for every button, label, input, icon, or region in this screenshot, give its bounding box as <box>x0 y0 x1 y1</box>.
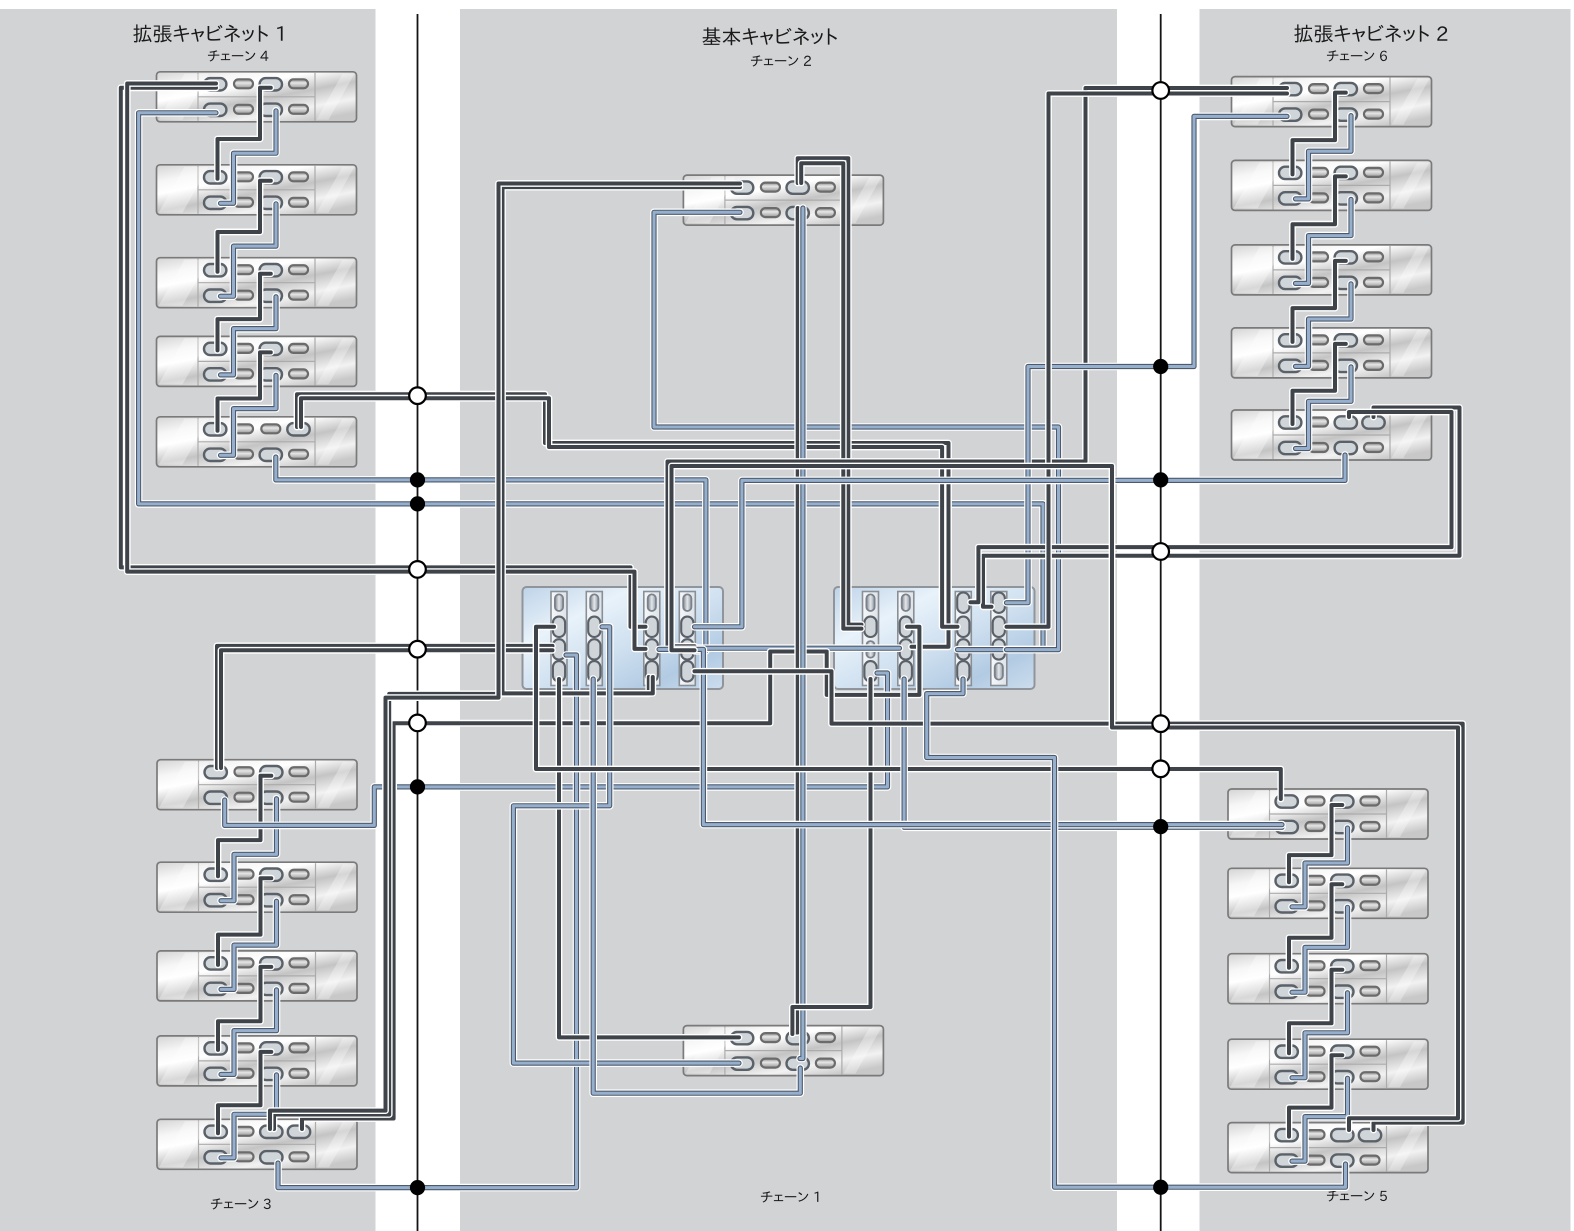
SAS cable RT1 r1p3 to RT2 r1p1 <box>1293 93 1346 175</box>
disk shelf chain4-5 <box>157 417 357 467</box>
disk shelf chain3-1 <box>157 760 357 810</box>
disk shelf chain3-5 <box>157 1119 357 1169</box>
cable CT r2p3 to CB r2p3 <box>800 208 803 1059</box>
cable C2 card4 p1 to RT5 r1p4 <box>983 408 1460 607</box>
disk shelf chain6-1 <box>1232 77 1432 127</box>
disk shelf chain3-3 <box>157 951 357 1001</box>
open junction circle at rack boundary (417.5,395.7) <box>409 387 426 404</box>
junction dot at rack boundary (417.5,1187.6) <box>410 1180 425 1195</box>
rack boundary line (right) <box>1160 14 1162 1231</box>
open junction circle at rack boundary (1160.7,723.7) <box>1152 715 1169 732</box>
cable C2 card4 p2 to RT1 r1p1 <box>1007 94 1288 627</box>
SAS cable LB2 r1p3 to LB3 r1p1 <box>218 878 271 965</box>
open junction circle at rack boundary (1160.7,90.5) <box>1152 82 1169 99</box>
open junction circle at rack boundary (417.5,649.2) <box>409 641 426 658</box>
cable LT5 r1p4 to C2 card3 p2 <box>301 398 958 627</box>
SAS cable RT3 r2p3 to RT4 r2p1 <box>1296 284 1352 367</box>
disk shelf chain6-3 <box>1232 245 1432 295</box>
SAS cable LT1 r1p3 to LT2 r1p1 <box>218 88 271 179</box>
SAS cable RB4 r1p3 to RB5 r1p1 <box>1289 1055 1342 1136</box>
SAS cable LB1 r1p3 to LB2 r1p1 <box>218 776 271 877</box>
disk shelf chain3-2 <box>157 862 357 912</box>
cabinet panel: expansion cabinet 2 (right) <box>1200 9 1571 1231</box>
SAS cable RB4 r2p3 to RB5 r2p1 <box>1292 1078 1348 1161</box>
title: base cabinet <box>702 27 837 45</box>
cable C1 card4 p2 to RT5 r2p3 <box>695 455 1346 627</box>
cable C2 card3 p4 to RB5 r2p3 <box>927 679 1346 1187</box>
SAS cable RB2 r1p3 to RB3 r1p1 <box>1289 884 1342 967</box>
cable C1 card3 p4 to LB5 r1p3 <box>274 677 649 1129</box>
disk shelf chain4-1 <box>157 72 357 122</box>
SAS cable LT2 r2p3 to LT3 r2p1 <box>221 204 277 296</box>
cable CT r1p1 to LB5 r1p3 b <box>270 184 740 1130</box>
disk shelf chain6-4 <box>1232 328 1432 378</box>
title: expansion cabinet 2 <box>1294 24 1447 42</box>
cable C2 card2 p2 to LB5 r1p4 <box>302 627 919 1129</box>
disk shelf chain4-3 <box>157 258 357 308</box>
cable C1 card4 p4 to RB5 r1p4 <box>695 671 1463 1130</box>
disk shelf chain5-2 <box>1228 868 1428 918</box>
SAS cable LB4 r2p3 to LB5 r2p1 <box>221 1075 277 1158</box>
SAS cable RT1 r2p3 to RT2 r2p1 <box>1296 116 1352 199</box>
SAS cable RT4 r2p3 to RT5 r2p1 <box>1296 367 1352 449</box>
junction dot at rack boundary (1160.7,479.9) <box>1153 472 1168 487</box>
label: chain 2 <box>751 55 811 66</box>
SAS cable RB3 r1p3 to RB4 r1p1 <box>1289 970 1342 1053</box>
controller head 1 <box>523 587 724 689</box>
label: chain 1 <box>761 1191 818 1202</box>
cable C1 card4 p3 to C2 card2 p3 <box>695 644 900 652</box>
disk shelf chain2 <box>683 175 883 225</box>
disk shelf chain6-2 <box>1232 160 1432 210</box>
cable C1 card2 p2 to CB r2p1 <box>513 627 739 1063</box>
SAS cable LB2 r2p3 to LB3 r2p1 <box>221 901 277 989</box>
SAS cable RT3 r1p3 to RT4 r1p1 <box>1293 261 1346 342</box>
junction dot at rack boundary (417.5,503.9) <box>410 496 425 511</box>
title: expansion cabinet 1 <box>133 24 282 42</box>
disk shelf chain5-4 <box>1228 1039 1428 1089</box>
disk shelf chain3-4 <box>157 1036 357 1086</box>
SAS cable LB4 r1p3 to LB5 r1p1 <box>218 1052 271 1133</box>
SAS cable LT2 r1p3 to LT3 r1p1 <box>218 181 271 272</box>
cable C2 card4 p1 to RT1 r2p1 <box>1007 116 1288 602</box>
open junction circle at rack boundary (417.5,722.9) <box>409 715 426 732</box>
SAS cable LT4 r2p3 to LT5 r2p1 <box>221 375 277 455</box>
SAS cable RB2 r2p3 to RB3 r2p1 <box>1292 907 1348 992</box>
cable LB1 r1p1 to C1 card1 p3 <box>217 646 553 768</box>
SAS cable LB1 r2p3 to LB2 r2p1 <box>221 799 277 901</box>
SAS cable RB3 r2p3 to RB4 r2p1 <box>1292 993 1348 1078</box>
disk shelf chain4-2 <box>157 165 357 215</box>
SAS cable LT3 r2p3 to LT4 r2p1 <box>221 297 277 375</box>
SAS cable LB3 r2p3 to LB4 r2p1 <box>221 990 277 1075</box>
cable CT r2p3 to CB r1p3 <box>795 208 798 1033</box>
junction dot at rack boundary (1160.7,1187.2) <box>1153 1180 1168 1195</box>
SAS cable RT2 r2p3 to RT3 r2p1 <box>1296 199 1352 283</box>
label: chain 5 <box>1327 1190 1387 1201</box>
disk shelf chain1 <box>683 1026 883 1076</box>
cable LT1 r1p1 to C1 card3 p2 <box>121 88 646 627</box>
cable C1 card1 p2 to RB1 r1p1 <box>536 627 1281 799</box>
cable LB5 r2p3 to C1 card2 p3 <box>278 655 577 1188</box>
disk shelf chain4-4 <box>157 336 357 386</box>
SAS cable LT1 r2p3 to LT2 r2p1 <box>221 111 277 204</box>
cable CT r1p3 to C2 card1 p2 <box>798 158 862 624</box>
cable C2 card2 p4 to RB1 r2p1 <box>904 679 1282 827</box>
cable C1 card4 p3 to RT1 r1p1 <box>668 88 1288 646</box>
label: chain 3 <box>211 1198 271 1209</box>
cable C1 card4 p3 to RB5 r1p3 <box>672 466 1459 1130</box>
open junction circle at rack boundary (417.5,569.4) <box>409 561 426 578</box>
cable C2 card3 p1 to RT5 r1p3 <box>971 412 1452 602</box>
SAS cable RB1 r1p3 to RB2 r1p1 <box>1289 805 1342 882</box>
cable C1 card1 p4 to CB r1p1 <box>559 679 739 1037</box>
cable CT r1p1 to C1 card3 p4 <box>503 187 741 693</box>
junction dot at rack boundary (1160.7,826.6) <box>1153 819 1168 834</box>
rack boundary line (left) <box>417 14 419 1231</box>
cable LT5 r2p3 to C1 card4 p3 <box>276 457 706 651</box>
cable LB1 r1p1 to C1 card1 p3 b <box>221 650 553 768</box>
cable C1 card3 p3 to RB1 r2p1 b <box>659 649 1282 824</box>
disk shelf chain6-5 <box>1232 410 1432 460</box>
cable LT1 r1p1 to C1 card3 p3 <box>127 84 645 649</box>
SAS cable LT3 r1p3 to LT4 r1p1 <box>218 274 271 351</box>
cable plug rings <box>204 78 1385 1167</box>
cable CT r1p3 to C2 card1 p2 b <box>801 163 861 628</box>
open junction circle at rack boundary (1160.7,551.5) <box>1152 543 1169 560</box>
open junction circle at rack boundary (1160.7,768.8) <box>1152 761 1169 778</box>
cable LT1 r2p1 to C2 card3 p3 <box>139 113 1043 650</box>
disk shelf chain5-5 <box>1228 1123 1428 1173</box>
SAS cable LT4 r1p3 to LT5 r1p1 <box>218 352 271 430</box>
disk shelf chain5-3 <box>1228 954 1428 1004</box>
cable CT r2p1 to C2 card4 p3 <box>654 212 1059 649</box>
label: chain 6 <box>1327 50 1387 61</box>
cable C2 card1 p4 to CB r1p3 <box>792 679 870 1034</box>
cable LB1 r2p1 to C2 card1 p4 <box>225 673 888 825</box>
SAS cable LB3 r1p3 to LB4 r1p1 <box>218 967 271 1050</box>
junction dot at rack boundary (417.5,786.9) <box>410 779 425 794</box>
junction dot at rack boundary (1160.7,366.5) <box>1153 359 1168 374</box>
junction dot at rack boundary (417.5,479.9) <box>410 472 425 487</box>
label: chain 4 <box>208 50 268 61</box>
cabinet panel: base cabinet (center) <box>460 9 1117 1231</box>
SAS cable RT2 r1p3 to RT3 r1p1 <box>1293 176 1346 259</box>
SAS cable RB1 r2p3 to RB2 r2p1 <box>1292 828 1348 907</box>
cable LT5 r1p4 to C2 card2 p3 <box>297 394 949 647</box>
controller head 2 <box>834 587 1035 689</box>
disk shelf chain5-1 <box>1228 789 1428 839</box>
cabinet panel: expansion cabinet 1 (left) <box>0 9 376 1231</box>
SAS cable RT4 r1p3 to RT5 r1p1 <box>1293 344 1346 424</box>
cable C1 card2 p4 to CB r2p3 <box>593 679 800 1093</box>
